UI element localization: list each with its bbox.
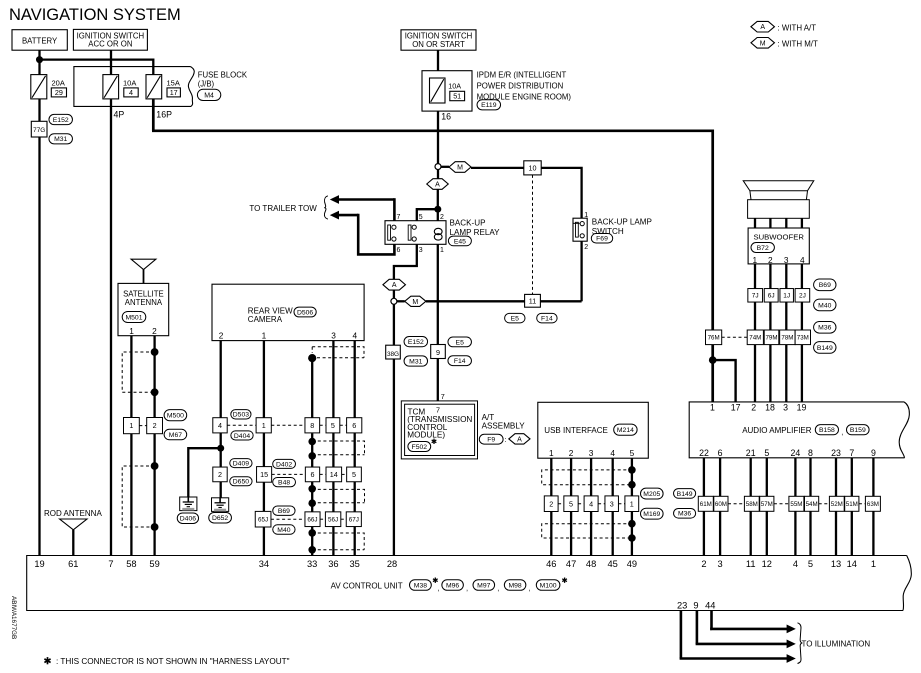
svg-text:7: 7: [397, 214, 401, 221]
connector 60M: [714, 496, 728, 511]
svg-text:SUBWOOFER: SUBWOOFER: [753, 233, 804, 242]
svg-text:8: 8: [808, 448, 813, 458]
svg-text:76M: 76M: [708, 335, 720, 342]
wire amp 9 to AV 1: [872, 458, 874, 556]
connector 74M: [747, 330, 763, 345]
wire hexagon A to relay pin 2: [437, 189, 439, 220]
svg-text:61: 61: [68, 559, 78, 569]
svg-text:E152: E152: [53, 117, 69, 124]
wire camera pin 3 to AV 36: [332, 341, 334, 556]
wire connector 11 to switch pin 2: [540, 300, 581, 302]
connector label E5 at 9: [448, 337, 472, 347]
svg-text:M500: M500: [167, 413, 184, 420]
connector 61M: [698, 496, 713, 511]
svg-text:,: ,: [841, 428, 843, 437]
svg-text:M: M: [457, 165, 463, 172]
arrow to trailer tow 2 (relay pin 6): [330, 211, 395, 255]
svg-text:9: 9: [693, 601, 698, 611]
title NAVIGATION SYSTEM: [9, 6, 181, 24]
ignition switch ON or START: [401, 30, 476, 50]
svg-text:5: 5: [569, 499, 573, 508]
svg-text:4: 4: [793, 559, 798, 569]
legend A : WITH A/T: [751, 21, 816, 32]
svg-text:E45: E45: [454, 238, 466, 245]
amp top pin labels: [710, 402, 807, 412]
svg-text:33: 33: [307, 559, 317, 569]
rod antenna symbol: [60, 519, 87, 530]
svg-text:54M: 54M: [806, 501, 818, 508]
svg-text:7: 7: [441, 392, 445, 401]
ground D406: [177, 497, 198, 523]
svg-text:23: 23: [677, 601, 687, 611]
svg-text:ABIWA1677GB: ABIWA1677GB: [10, 596, 17, 639]
svg-text:8: 8: [310, 421, 314, 430]
svg-text:TO ILLUMINATION: TO ILLUMINATION: [802, 640, 871, 649]
svg-text:57M: 57M: [761, 501, 773, 508]
connector label M36 (subwoofer): [814, 322, 836, 334]
svg-text:46: 46: [546, 559, 556, 569]
svg-text:10: 10: [529, 164, 537, 173]
wire branch to ground D406: [188, 448, 220, 497]
junction dots wire 33: [308, 438, 316, 554]
svg-text:4: 4: [352, 331, 357, 341]
svg-text:ASSEMBLY: ASSEMBLY: [482, 422, 526, 431]
svg-text:2J: 2J: [799, 293, 806, 300]
svg-text:AV CONTROL UNIT: AV CONTROL UNIT: [331, 582, 403, 591]
svg-text:E5: E5: [456, 339, 465, 346]
svg-text:,: ,: [438, 584, 440, 593]
svg-text:2: 2: [549, 499, 553, 508]
connector label M67: [164, 429, 187, 439]
AV bottom pin labels 23 9 44: [677, 601, 715, 611]
svg-text:LAMP RELAY: LAMP RELAY: [450, 228, 501, 237]
svg-text:M4: M4: [204, 92, 214, 99]
ignition switch ACC or ON: [73, 29, 147, 50]
svg-text:E152: E152: [408, 339, 424, 346]
label A/T assembly F9: [479, 413, 530, 444]
svg-text:22: 22: [699, 448, 709, 458]
svg-text:M96: M96: [446, 582, 459, 589]
wire amp 7 to AV 14: [851, 458, 853, 556]
connector 57M: [760, 496, 774, 511]
svg-text:A: A: [392, 282, 397, 289]
svg-text:23: 23: [831, 448, 841, 458]
svg-text:6: 6: [718, 448, 723, 458]
connector label M40 (subwoofer): [814, 299, 836, 311]
wire connector 10 to back-up lamp switch pin 1: [541, 168, 581, 218]
fuse 20A 29: [31, 75, 67, 99]
wire 77G to AV pin 19: [38, 137, 40, 556]
connector 1 (USB row): [618, 496, 638, 512]
diagram code ABIWA1677GB: [10, 596, 17, 639]
svg-text:9: 9: [436, 348, 440, 357]
connector label M31: [49, 134, 72, 144]
svg-text:3: 3: [784, 255, 789, 265]
pin 16: [441, 112, 451, 122]
svg-text:55M: 55M: [790, 501, 802, 508]
svg-text:63M: 63M: [867, 501, 879, 508]
svg-text:M36: M36: [678, 511, 691, 518]
hexagon A lower: [383, 279, 406, 290]
connector 3 (USB row): [598, 496, 618, 512]
wire speaker stubs: [755, 218, 802, 228]
wire battery to fuse 20A: [38, 50, 40, 74]
svg-text:3: 3: [419, 247, 423, 254]
junction dots satellite wire 2: [151, 348, 159, 531]
connector 55M: [774, 496, 804, 511]
svg-text:B69: B69: [278, 508, 290, 515]
hexagon M lower: [397, 296, 426, 306]
label TO ILLUMINATION: [802, 640, 871, 649]
connector 65J (camera row 3): [255, 511, 271, 527]
svg-text:ANTENNA: ANTENNA: [125, 298, 163, 307]
svg-text:10A: 10A: [123, 78, 136, 87]
wire satellite 2 to AV 59: [153, 336, 155, 556]
svg-text:B149: B149: [677, 491, 693, 498]
connector label B48: [273, 477, 296, 486]
wire USB 4 to AV 45: [612, 458, 614, 555]
connector 54M: [805, 496, 819, 511]
connector 38G: [386, 345, 401, 359]
wire 16P bus to audio amplifier: [152, 99, 713, 330]
connector label F14 at 9: [448, 356, 472, 366]
svg-text:,: ,: [529, 584, 531, 593]
svg-text:A: A: [517, 436, 522, 443]
AV control unit box: [27, 556, 912, 611]
AV control unit label with connectors M38 M96 M97 M98 M100: [331, 578, 567, 593]
svg-text:1: 1: [584, 212, 588, 219]
connector label E5 under 11: [505, 313, 525, 323]
connector label M31 at 38G: [404, 356, 428, 366]
svg-text:M98: M98: [508, 582, 521, 589]
connector 8 (camera row 1): [271, 418, 319, 433]
svg-text:14: 14: [330, 470, 338, 479]
svg-text:IPDM E/R (INTELLIGENT: IPDM E/R (INTELLIGENT: [477, 71, 567, 80]
connector 10: [524, 161, 541, 175]
camera pin 1 label: [262, 331, 267, 341]
svg-text:15: 15: [260, 470, 268, 479]
svg-text:B69: B69: [819, 282, 831, 289]
svg-text:F502: F502: [412, 444, 428, 451]
svg-text:4: 4: [218, 421, 222, 430]
svg-text:B72: B72: [757, 245, 769, 252]
svg-text:16P: 16P: [156, 109, 172, 119]
svg-text:10A: 10A: [448, 82, 461, 91]
svg-text:1: 1: [752, 255, 757, 265]
svg-text:1: 1: [262, 331, 267, 341]
svg-text:61M: 61M: [700, 501, 712, 508]
svg-text:1: 1: [440, 247, 444, 254]
svg-text:66J: 66J: [307, 516, 317, 523]
svg-text:2: 2: [440, 214, 444, 221]
svg-text:D503: D503: [233, 412, 249, 419]
svg-text:(J/B): (J/B): [198, 79, 215, 88]
wire subwoofer 2 to amp 18: [769, 264, 771, 402]
svg-text:D406: D406: [180, 516, 196, 523]
connector 6J: [764, 289, 778, 303]
USB pin 5 label: [630, 448, 635, 458]
option merge circle A/T-M/T top: [435, 164, 441, 170]
svg-text:1: 1: [630, 499, 634, 508]
svg-text:5: 5: [764, 448, 769, 458]
connector 11: [525, 294, 541, 307]
connector 4 (USB row): [578, 496, 598, 512]
wire junction to relay pin 5: [417, 209, 438, 220]
dashed shield camera mid 2: [312, 489, 364, 502]
svg-text:,: ,: [497, 584, 499, 593]
svg-text:4: 4: [610, 448, 615, 458]
connector label E152 at 38G: [404, 337, 428, 347]
svg-text:18: 18: [765, 402, 775, 412]
svg-text:B48: B48: [278, 480, 290, 487]
svg-text:4: 4: [129, 88, 133, 97]
svg-text:7J: 7J: [752, 293, 759, 300]
wire subwoofer 3 to amp 3: [785, 264, 787, 402]
USB interface M214: [538, 402, 649, 458]
wire USB 5 to AV 49: [631, 458, 633, 555]
svg-text:4P: 4P: [114, 109, 125, 119]
svg-text:F14: F14: [454, 358, 466, 365]
connector label M205: [641, 488, 664, 499]
svg-text:POWER DISTRIBUTION: POWER DISTRIBUTION: [477, 82, 564, 91]
camera pin 2 label: [219, 331, 224, 341]
svg-text:2: 2: [751, 402, 756, 412]
svg-text:F9: F9: [487, 437, 495, 444]
svg-text:5: 5: [808, 559, 813, 569]
svg-text:D409: D409: [233, 461, 249, 468]
USB pin 1 label: [549, 448, 554, 458]
wire ignition ON/START to IPDM: [437, 50, 439, 70]
connector 56J (camera row 3): [320, 512, 341, 527]
connector 66J (camera row 3): [271, 512, 320, 527]
camera pin 4 label: [352, 331, 357, 341]
svg-text:2: 2: [153, 421, 157, 430]
svg-text:59: 59: [149, 559, 159, 569]
svg-text:M97: M97: [477, 582, 490, 589]
svg-text:2: 2: [569, 448, 574, 458]
connector 63M: [859, 496, 881, 511]
svg-text:34: 34: [259, 559, 269, 569]
svg-text:7: 7: [436, 406, 440, 415]
wire junction to amp pin 17: [713, 360, 736, 402]
svg-text:3: 3: [331, 331, 336, 341]
IPDM E/R box E119: [422, 71, 571, 112]
wire camera pin 4 to AV 35: [354, 341, 356, 556]
rear view camera D506: [212, 284, 364, 340]
wire battery bus to fuse 15A: [40, 60, 154, 75]
svg-text:14: 14: [847, 559, 857, 569]
connector label D404: [231, 431, 253, 440]
svg-text:1: 1: [129, 421, 133, 430]
TCM (transmission control module) F502: [401, 401, 477, 459]
svg-text:: WITH M/T: : WITH M/T: [778, 40, 819, 49]
svg-text:20A: 20A: [52, 78, 65, 87]
svg-text:B149: B149: [817, 345, 833, 352]
switch pin 1 label: [584, 212, 588, 219]
svg-text:2: 2: [218, 470, 222, 479]
svg-text:3: 3: [589, 448, 594, 458]
svg-text:3: 3: [783, 402, 788, 412]
amp bottom pin labels: [699, 448, 876, 458]
connector 2 (satellite row): [139, 418, 162, 434]
dashed shield camera mid 3: [312, 533, 364, 550]
wire amp 22 to AV 2: [703, 458, 705, 556]
svg-text:NAVIGATION SYSTEM: NAVIGATION SYSTEM: [9, 6, 181, 24]
svg-text:29: 29: [55, 88, 63, 97]
svg-text:17: 17: [731, 402, 741, 412]
junction relay coil-contact: [434, 206, 441, 213]
label ROD ANTENNA: [44, 509, 102, 518]
svg-text:D402: D402: [276, 461, 292, 468]
svg-text:49: 49: [627, 559, 637, 569]
connector 2 (camera row 2): [213, 467, 227, 482]
wire amp 8 to AV 5: [809, 458, 811, 556]
svg-text:M31: M31: [54, 136, 67, 143]
junction battery bus: [36, 56, 43, 63]
connector 6 (camera row 2): [272, 467, 320, 482]
svg-text:E5: E5: [511, 316, 520, 323]
arrow AV 44 to illumination: [710, 611, 796, 634]
dashed shield satellite lower: [122, 466, 154, 527]
svg-text:M501: M501: [125, 314, 142, 321]
connector 51M: [845, 496, 859, 511]
svg-text:52M: 52M: [831, 501, 843, 508]
svg-text:7: 7: [849, 448, 854, 458]
svg-text:D506: D506: [297, 309, 313, 316]
wire 76M to amp pin 1: [711, 345, 714, 402]
connector label B149 (subwoofer): [814, 342, 836, 354]
svg-text:M67: M67: [169, 432, 182, 439]
wire merge to 38G: [393, 304, 395, 345]
svg-text:BACK-UP LAMP: BACK-UP LAMP: [592, 218, 652, 227]
connector 9: [431, 345, 446, 359]
satellite antenna symbol: [131, 259, 156, 283]
connector 73M: [795, 330, 810, 345]
svg-text:M: M: [412, 299, 418, 306]
wire IPDM pin 16 down: [437, 111, 439, 164]
wire connector 9 to TCM pin 7: [437, 359, 439, 401]
svg-text:47: 47: [566, 559, 576, 569]
wire rod antenna to AV 61: [72, 530, 74, 556]
svg-text:11: 11: [746, 559, 756, 569]
USB pin 3 label: [589, 448, 594, 458]
fuse 10A 4: [103, 75, 138, 99]
svg-text:58M: 58M: [746, 501, 758, 508]
svg-text:,: ,: [466, 584, 468, 593]
USB pin 2 label: [569, 448, 574, 458]
svg-text:M38: M38: [414, 582, 427, 589]
svg-text:BATTERY: BATTERY: [22, 37, 58, 46]
dashed shield satellite upper: [122, 352, 154, 392]
option merge circle lower: [391, 290, 397, 304]
AV pin labels USB: [546, 559, 637, 569]
svg-text:MODULE): MODULE): [407, 431, 445, 440]
svg-text:F69: F69: [596, 236, 608, 243]
connector 76M: [706, 330, 722, 345]
svg-text:73M: 73M: [797, 335, 809, 342]
switch pin 2 label: [584, 244, 588, 251]
svg-text:TO TRAILER TOW: TO TRAILER TOW: [249, 204, 317, 213]
brace illumination: [798, 623, 802, 664]
connector label B149 (USB row): [674, 489, 696, 499]
svg-text:M: M: [760, 40, 766, 47]
wire hexagon M to connector 11: [426, 300, 525, 302]
wire USB 3 to AV 48: [590, 458, 592, 555]
arrow AV 9 to illumination: [696, 611, 796, 649]
svg-text:1J: 1J: [783, 293, 790, 300]
wire amp 21 to AV 11: [750, 458, 752, 556]
wire subwoofer 4 to amp 19: [801, 264, 803, 402]
svg-text:21: 21: [746, 448, 756, 458]
dashed shield box USB lower: [542, 524, 632, 538]
connector 2J: [795, 289, 810, 303]
svg-text:2: 2: [701, 559, 706, 569]
svg-text:ROD ANTENNA: ROD ANTENNA: [44, 509, 102, 518]
hexagon A top: [427, 170, 449, 190]
svg-text:2: 2: [584, 244, 588, 251]
junction start of wire 33: [308, 354, 316, 362]
svg-text:2: 2: [768, 255, 773, 265]
junction dots USB wire 5: [628, 466, 636, 542]
arrow to trailer tow 1 (relay pin 7): [330, 195, 395, 220]
svg-text:F14: F14: [541, 316, 553, 323]
svg-text:6J: 6J: [768, 293, 775, 300]
svg-text:65J: 65J: [258, 516, 268, 523]
back-up lamp relay E45: [385, 218, 500, 245]
svg-text:5: 5: [630, 448, 635, 458]
wire fuse 20A to 77G: [38, 99, 40, 121]
subwoofer speaker symbol: [743, 181, 814, 219]
svg-text:2: 2: [219, 331, 224, 341]
svg-text:1: 1: [549, 448, 554, 458]
wire satellite 1 to AV 58: [130, 336, 132, 556]
connector label M40 (camera row 3): [273, 525, 295, 534]
wire camera pin 1 to AV 34: [263, 341, 265, 556]
svg-text:3: 3: [718, 559, 723, 569]
svg-text:51M: 51M: [846, 501, 858, 508]
junction amp feed split: [709, 356, 717, 364]
svg-text:60M: 60M: [715, 501, 727, 508]
connector 79M: [764, 330, 779, 345]
connector 5 (USB row): [558, 496, 578, 512]
wire camera pin 2 down: [220, 341, 222, 498]
svg-text:M100: M100: [540, 582, 557, 589]
pin 4P: [114, 109, 125, 119]
connector label F14 under 11: [537, 313, 557, 323]
svg-text:A: A: [435, 182, 440, 189]
svg-text:11: 11: [529, 297, 536, 306]
svg-text::: :: [505, 435, 507, 444]
svg-text:2: 2: [152, 326, 157, 336]
svg-text:B158: B158: [819, 427, 835, 434]
connector label D402: [273, 459, 296, 468]
svg-text:1: 1: [871, 559, 876, 569]
svg-text:58: 58: [126, 559, 136, 569]
footnote text: [56, 657, 290, 666]
wire subwoofer 1 to amp 2: [754, 264, 756, 402]
wire 33 down to AV: [311, 358, 313, 555]
svg-text:M205: M205: [643, 491, 660, 498]
wire switch pin 2 down: [580, 241, 582, 301]
dashed shield camera top: [312, 347, 364, 358]
svg-text:48: 48: [586, 559, 596, 569]
wire amp 6 to AV 3: [719, 458, 721, 556]
svg-text:: WITH A/T: : WITH A/T: [778, 23, 817, 32]
svg-text:78M: 78M: [781, 335, 793, 342]
svg-text:4: 4: [800, 255, 805, 265]
connector label B69 (camera row 3): [273, 506, 295, 515]
connector label B69 (subwoofer): [814, 279, 836, 291]
